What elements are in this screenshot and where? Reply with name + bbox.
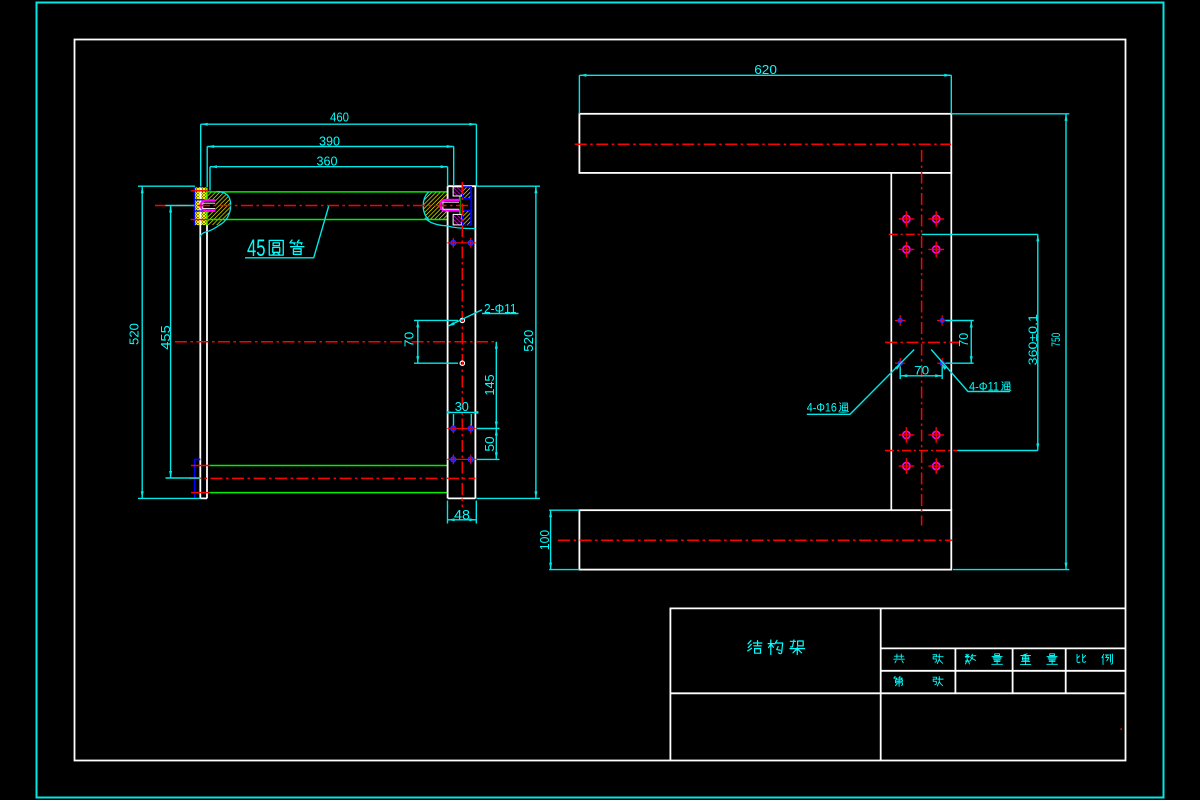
svg-text:145: 145 <box>482 374 497 395</box>
leader 2-phi11 <box>448 310 519 327</box>
left joint plate hatch <box>195 187 207 225</box>
TITLE BLOCK <box>670 608 1125 761</box>
top bar <box>579 114 951 173</box>
dim 390 line <box>207 146 454 148</box>
svg-text:30: 30 <box>455 399 469 414</box>
svg-text:100: 100 <box>537 530 552 550</box>
svg-text:45: 45 <box>247 235 266 262</box>
right column white <box>448 186 476 498</box>
red ticks bottom-left <box>191 466 210 493</box>
2-phi11 holes white <box>460 318 464 322</box>
red centerline bottom bar <box>558 539 952 541</box>
green tube-end verticals <box>207 188 460 225</box>
leader 4-phi16 <box>807 350 914 415</box>
red group-center top <box>889 233 922 235</box>
dim 750 <box>951 114 1069 570</box>
right joint cyan contour <box>423 192 429 220</box>
dim 48 <box>448 501 477 524</box>
row2: 第 张 <box>894 676 903 686</box>
dim 70 horizontal rv <box>900 367 942 380</box>
blue bolt holes rows with red crosses <box>451 240 473 461</box>
dim 620 <box>579 75 951 114</box>
leader 45yuanguan <box>245 206 329 258</box>
bottom bar <box>579 510 951 569</box>
bottom-left blue edge <box>195 459 201 498</box>
red group-center bottom <box>885 450 957 452</box>
right slot magenta <box>440 200 460 211</box>
dim 360 line <box>210 166 448 168</box>
dim 30 <box>447 412 479 425</box>
svg-text:455: 455 <box>158 325 173 350</box>
svg-text:460: 460 <box>330 109 349 124</box>
phi16 hole crosses red <box>899 211 944 474</box>
row1: 共 张 数 量 重 量 比 例 <box>894 654 905 663</box>
top tube green outline <box>207 192 448 220</box>
bottom tube green outline <box>210 466 448 493</box>
left column white <box>200 187 207 498</box>
red centerline top tube <box>155 205 470 207</box>
dim arrowheads right view <box>549 74 1067 570</box>
svg-text:750: 750 <box>1049 332 1063 346</box>
dim arrowheads left view <box>141 123 538 522</box>
left joint boss lobe hatch <box>207 192 231 226</box>
leader 4-phi11 <box>931 350 1010 392</box>
left joint blue box <box>194 200 203 211</box>
dim 70 left view <box>414 320 458 363</box>
left slot magenta <box>201 200 215 210</box>
svg-text:50: 50 <box>482 436 497 451</box>
inner white drawing frame <box>75 40 1126 761</box>
svg-text:4-Φ11: 4-Φ11 <box>969 382 999 394</box>
svg-text:70: 70 <box>956 333 971 347</box>
right joint blue edge <box>470 186 472 225</box>
left slot inner white <box>203 203 215 208</box>
svg-text:48: 48 <box>454 506 470 522</box>
left joint cyan contour <box>200 192 230 237</box>
red ticks left joint <box>191 191 209 220</box>
right joint yellow hatch squares <box>463 187 471 199</box>
red centerline top bar <box>575 143 951 145</box>
dim 520 right <box>477 186 541 498</box>
red centerline mid <box>175 341 497 343</box>
svg-text:360±0.1: 360±0.1 <box>1026 314 1040 366</box>
red mid horizontal <box>885 341 960 343</box>
right slot inner white <box>443 202 459 209</box>
dim 70 vertical rv <box>946 321 974 364</box>
svg-text:4-Φ16: 4-Φ16 <box>807 403 837 415</box>
svg-text:360: 360 <box>317 154 338 169</box>
dim 145/50 <box>477 342 500 460</box>
dim 460 line <box>201 123 477 125</box>
ext lines above joints <box>201 124 477 190</box>
left joint blue edge <box>193 187 195 225</box>
red vertical column centerline <box>921 150 923 526</box>
right joint lower cyan contour <box>425 218 476 229</box>
svg-text:390: 390 <box>319 133 340 148</box>
dim 455 <box>166 206 201 479</box>
right joint magenta hatch squares <box>453 187 462 196</box>
stray red dot <box>1120 728 1122 730</box>
phi11 hole crosses red <box>895 315 947 368</box>
dim 360+-0.1 <box>922 234 1038 450</box>
red centerline bottom tube <box>189 477 475 479</box>
title text 结构架 <box>748 641 762 654</box>
phi16 holes magenta <box>903 215 940 469</box>
svg-text:70: 70 <box>914 365 929 377</box>
dim 100 <box>549 510 579 569</box>
column <box>891 173 951 510</box>
svg-text:2-Φ11: 2-Φ11 <box>484 302 517 316</box>
svg-text:520: 520 <box>521 330 536 352</box>
svg-text:70: 70 <box>401 332 416 347</box>
red vertical centerline right column <box>461 182 463 507</box>
dim 520 left <box>138 186 200 498</box>
svg-text:520: 520 <box>127 323 142 345</box>
svg-text:620: 620 <box>754 62 777 77</box>
right joint boss lobe hatch <box>423 192 447 220</box>
phi11 small holes blue <box>898 319 944 366</box>
